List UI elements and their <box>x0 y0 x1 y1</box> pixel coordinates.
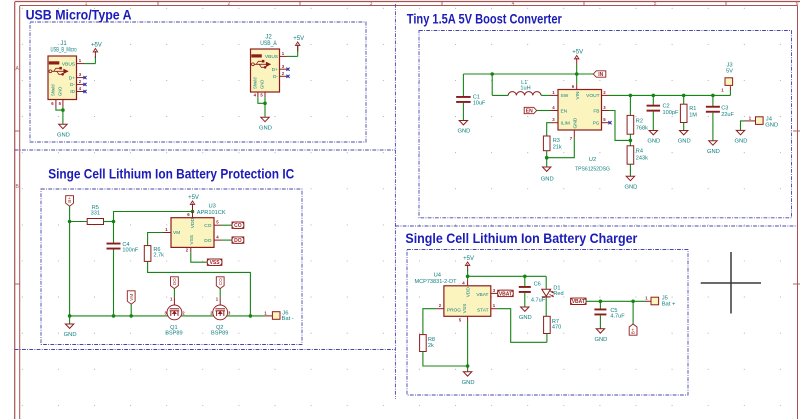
svg-text:VSS: VSS <box>210 260 221 266</box>
svg-text:R2: R2 <box>636 119 643 125</box>
svg-text:VOUT: VOUT <box>586 93 599 99</box>
svg-text:GND: GND <box>765 123 778 129</box>
svg-text:VIN: VIN <box>575 91 581 100</box>
svg-text:D-: D- <box>273 74 278 80</box>
svg-text:PROG: PROG <box>447 307 461 313</box>
svg-text:USB_B_Micro: USB_B_Micro <box>51 48 77 54</box>
svg-text:CO: CO <box>218 278 223 285</box>
svg-text:EN: EN <box>561 108 568 114</box>
svg-text:D+: D+ <box>69 75 75 81</box>
svg-text:GND: GND <box>58 87 63 96</box>
svg-text:VDD: VDD <box>190 218 196 229</box>
svg-text:GND: GND <box>519 315 532 321</box>
svg-text:GND: GND <box>624 185 637 191</box>
svg-text:VM: VM <box>173 230 180 236</box>
svg-text:GND: GND <box>64 332 77 338</box>
svg-text:GND: GND <box>259 126 272 132</box>
svg-text:R4: R4 <box>636 149 643 155</box>
svg-text:DO: DO <box>204 238 211 244</box>
svg-text:10uF: 10uF <box>473 100 486 106</box>
svg-text:4.7uF: 4.7uF <box>531 298 546 304</box>
svg-text:Bat -: Bat - <box>282 316 294 322</box>
svg-text:B+: B+ <box>67 197 72 203</box>
svg-text:Red: Red <box>553 291 563 297</box>
svg-text:5: 5 <box>654 1 657 7</box>
svg-text:100nF: 100nF <box>122 247 138 253</box>
svg-text:4.7uF: 4.7uF <box>610 314 625 320</box>
svg-text:J3: J3 <box>726 63 732 69</box>
svg-text:GND: GND <box>647 139 660 145</box>
svg-text:VBAT: VBAT <box>572 299 585 305</box>
svg-text:GND: GND <box>457 129 470 135</box>
svg-text:Tiny 1.5A 5V Boost Converter: Tiny 1.5A 5V Boost Converter <box>407 11 562 27</box>
svg-text:Shield: Shield <box>51 84 56 96</box>
svg-text:5V: 5V <box>726 69 733 75</box>
svg-text:243k: 243k <box>636 155 648 161</box>
svg-text:CO: CO <box>234 223 242 229</box>
svg-text:U4: U4 <box>434 272 442 278</box>
svg-text:Bat +: Bat + <box>662 302 676 308</box>
svg-text:EN: EN <box>526 108 533 114</box>
svg-text:VBAT: VBAT <box>476 292 488 298</box>
svg-text:SW: SW <box>561 93 569 99</box>
svg-text:USB Micro/Type A: USB Micro/Type A <box>26 6 132 22</box>
svg-text:Shield: Shield <box>253 77 258 89</box>
svg-text:DO: DO <box>172 278 177 285</box>
svg-text:+5V: +5V <box>463 256 474 262</box>
svg-text:U3: U3 <box>209 204 216 210</box>
svg-text:2: 2 <box>228 1 231 7</box>
svg-text:R1: R1 <box>689 106 696 112</box>
svg-text:IN: IN <box>598 72 603 78</box>
svg-text:BSP89: BSP89 <box>211 331 228 337</box>
svg-text:VSS: VSS <box>189 235 195 245</box>
svg-text:APR101CK: APR101CK <box>197 210 226 216</box>
svg-text:ID: ID <box>70 89 75 95</box>
svg-text:GND: GND <box>57 133 70 139</box>
svg-text:2k: 2k <box>428 343 434 349</box>
svg-text:MCP73831-2-DT: MCP73831-2-DT <box>415 279 457 285</box>
svg-text:CO: CO <box>204 223 211 229</box>
svg-text:GND: GND <box>594 337 607 343</box>
svg-text:+5V: +5V <box>91 42 102 48</box>
svg-text:VBAT: VBAT <box>499 291 512 297</box>
svg-text:Singe Cell Lithium Ion Battery: Singe Cell Lithium Ion Battery Protectio… <box>48 166 294 182</box>
svg-text:GND: GND <box>541 177 554 183</box>
svg-text:TPS61252DSG: TPS61252DSG <box>575 167 610 173</box>
svg-text:Single Cell Lithium Ion Batter: Single Cell Lithium Ion Battery Charger <box>405 230 637 246</box>
svg-text:1M: 1M <box>689 112 697 118</box>
svg-text:ILIM: ILIM <box>561 121 570 127</box>
svg-text:470: 470 <box>552 325 561 331</box>
svg-text:R3: R3 <box>553 138 560 144</box>
svg-text:22uF: 22uF <box>721 112 734 118</box>
svg-text:1uH: 1uH <box>520 86 530 92</box>
svg-text:GND: GND <box>678 139 691 145</box>
svg-text:+5V: +5V <box>572 49 583 55</box>
svg-text:VDD: VDD <box>466 287 472 298</box>
svg-text:J4: J4 <box>766 116 773 122</box>
svg-text:U2: U2 <box>589 157 596 163</box>
svg-text:J2: J2 <box>265 35 272 41</box>
svg-text:3: 3 <box>370 1 373 7</box>
svg-text:FB: FB <box>593 108 599 114</box>
svg-text:331: 331 <box>91 211 100 217</box>
svg-text:VM: VM <box>129 294 134 301</box>
svg-text:BSP89: BSP89 <box>165 331 182 337</box>
svg-text:+5V: +5V <box>188 195 199 201</box>
svg-text:B+: B+ <box>631 328 636 334</box>
svg-text:VSS: VSS <box>462 304 468 314</box>
svg-text:C2: C2 <box>663 104 670 110</box>
svg-text:GND: GND <box>735 139 748 145</box>
svg-text:GND: GND <box>462 380 475 386</box>
svg-text:C3: C3 <box>721 106 728 112</box>
svg-text:J1: J1 <box>60 41 67 47</box>
svg-text:768k: 768k <box>636 125 648 131</box>
svg-text:GND: GND <box>572 117 578 128</box>
svg-text:VBUS: VBUS <box>62 61 75 67</box>
svg-text:4: 4 <box>512 1 515 7</box>
svg-text:PG: PG <box>593 121 600 127</box>
svg-text:GND: GND <box>260 80 265 89</box>
svg-text:C6: C6 <box>534 282 541 288</box>
svg-text:100pF: 100pF <box>663 110 679 116</box>
svg-text:DO: DO <box>234 238 242 244</box>
svg-text:2.7k: 2.7k <box>153 253 164 259</box>
svg-text:USB_A: USB_A <box>260 41 277 47</box>
svg-text:+5V: +5V <box>293 36 304 42</box>
svg-text:STAT: STAT <box>477 307 489 313</box>
svg-text:VBUS: VBUS <box>265 54 278 60</box>
svg-text:D-: D- <box>70 82 75 88</box>
svg-text:GND: GND <box>707 149 720 155</box>
svg-text:21k: 21k <box>553 144 562 150</box>
svg-text:6: 6 <box>796 1 799 7</box>
svg-text:D+: D+ <box>272 67 278 73</box>
